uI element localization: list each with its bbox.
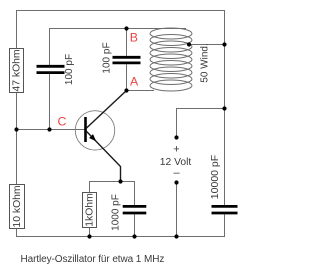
svg-text:+: + [173, 143, 179, 155]
resistor R1 47 kOhm [10, 49, 24, 93]
inductor L1 coil [150, 28, 192, 91]
wire inner top [50, 29, 187, 66]
junction divider tap [47, 127, 51, 131]
wire cap2 branch lower [126, 64, 128, 90]
wire 1k to bottom rail [89, 228, 91, 237]
wire right rail upper [224, 45, 226, 206]
svg-text:C: C [58, 115, 67, 129]
svg-text:B: B [130, 30, 138, 44]
junction coil tap [187, 42, 191, 46]
junction bottom 1000pF [132, 234, 136, 238]
battery B1 plus lead dot [174, 135, 178, 139]
wire 1000pF to bottom rail [134, 214, 136, 236]
svg-text:50 Wind.: 50 Wind. [200, 43, 211, 82]
capacitor C4 10000 pF plates [212, 206, 238, 213]
transistor Q1 emitter line [86, 131, 121, 182]
junction rail coil tap [222, 42, 226, 46]
wire battery bottom [176, 183, 178, 237]
wire cap1 lower [49, 74, 51, 130]
transistor Q1 base bar [84, 117, 87, 142]
transistor Q1 circle [75, 111, 114, 150]
capacitor C2 100 pF plates [113, 57, 141, 63]
wire left rail middle [16, 93, 18, 185]
svg-text:1000 pF: 1000 pF [111, 194, 122, 231]
transistor Q1 collector line [86, 91, 127, 129]
svg-text:100 pF: 100 pF [64, 54, 75, 85]
junction node C left [14, 127, 18, 131]
junction node B [124, 26, 128, 30]
transistor Q1 emitter arrow [89, 134, 96, 141]
junction node A [124, 88, 128, 92]
svg-text:47 kOhm: 47 kOhm [11, 49, 22, 91]
resistor R2 10 kOhm [10, 185, 25, 229]
capacitor C1 100 pF plates [37, 66, 65, 72]
svg-text:10 kOhm: 10 kOhm [12, 185, 23, 227]
svg-text:10000 pF: 10000 pF [209, 155, 221, 199]
junction bottom battery [174, 234, 178, 238]
capacitor C3 1000 pF plates [123, 206, 147, 213]
battery B1 minus lead dot [174, 180, 178, 184]
wire cap2 branch upper [126, 29, 128, 56]
svg-text:A: A [130, 75, 139, 89]
wire top rail [17, 11, 225, 49]
wire emitter node [90, 182, 135, 206]
junction emitter node [118, 179, 122, 183]
svg-text:Hartley-Oszillator für etwa 1: Hartley-Oszillator für etwa 1 MHz [21, 254, 165, 265]
wire battery top [177, 109, 225, 137]
junction rail battery [222, 106, 226, 110]
wire coil tap [189, 44, 225, 46]
wire right rail lower [17, 214, 225, 236]
svg-text:1kOhm: 1kOhm [84, 193, 95, 227]
wire node A to coil [127, 90, 155, 92]
svg-text:–: – [173, 167, 180, 179]
resistor R3 1kOhm [83, 193, 97, 228]
svg-text:100 pF: 100 pF [102, 42, 113, 73]
junction bottom 1k [87, 234, 91, 238]
wire base node C [17, 129, 86, 131]
